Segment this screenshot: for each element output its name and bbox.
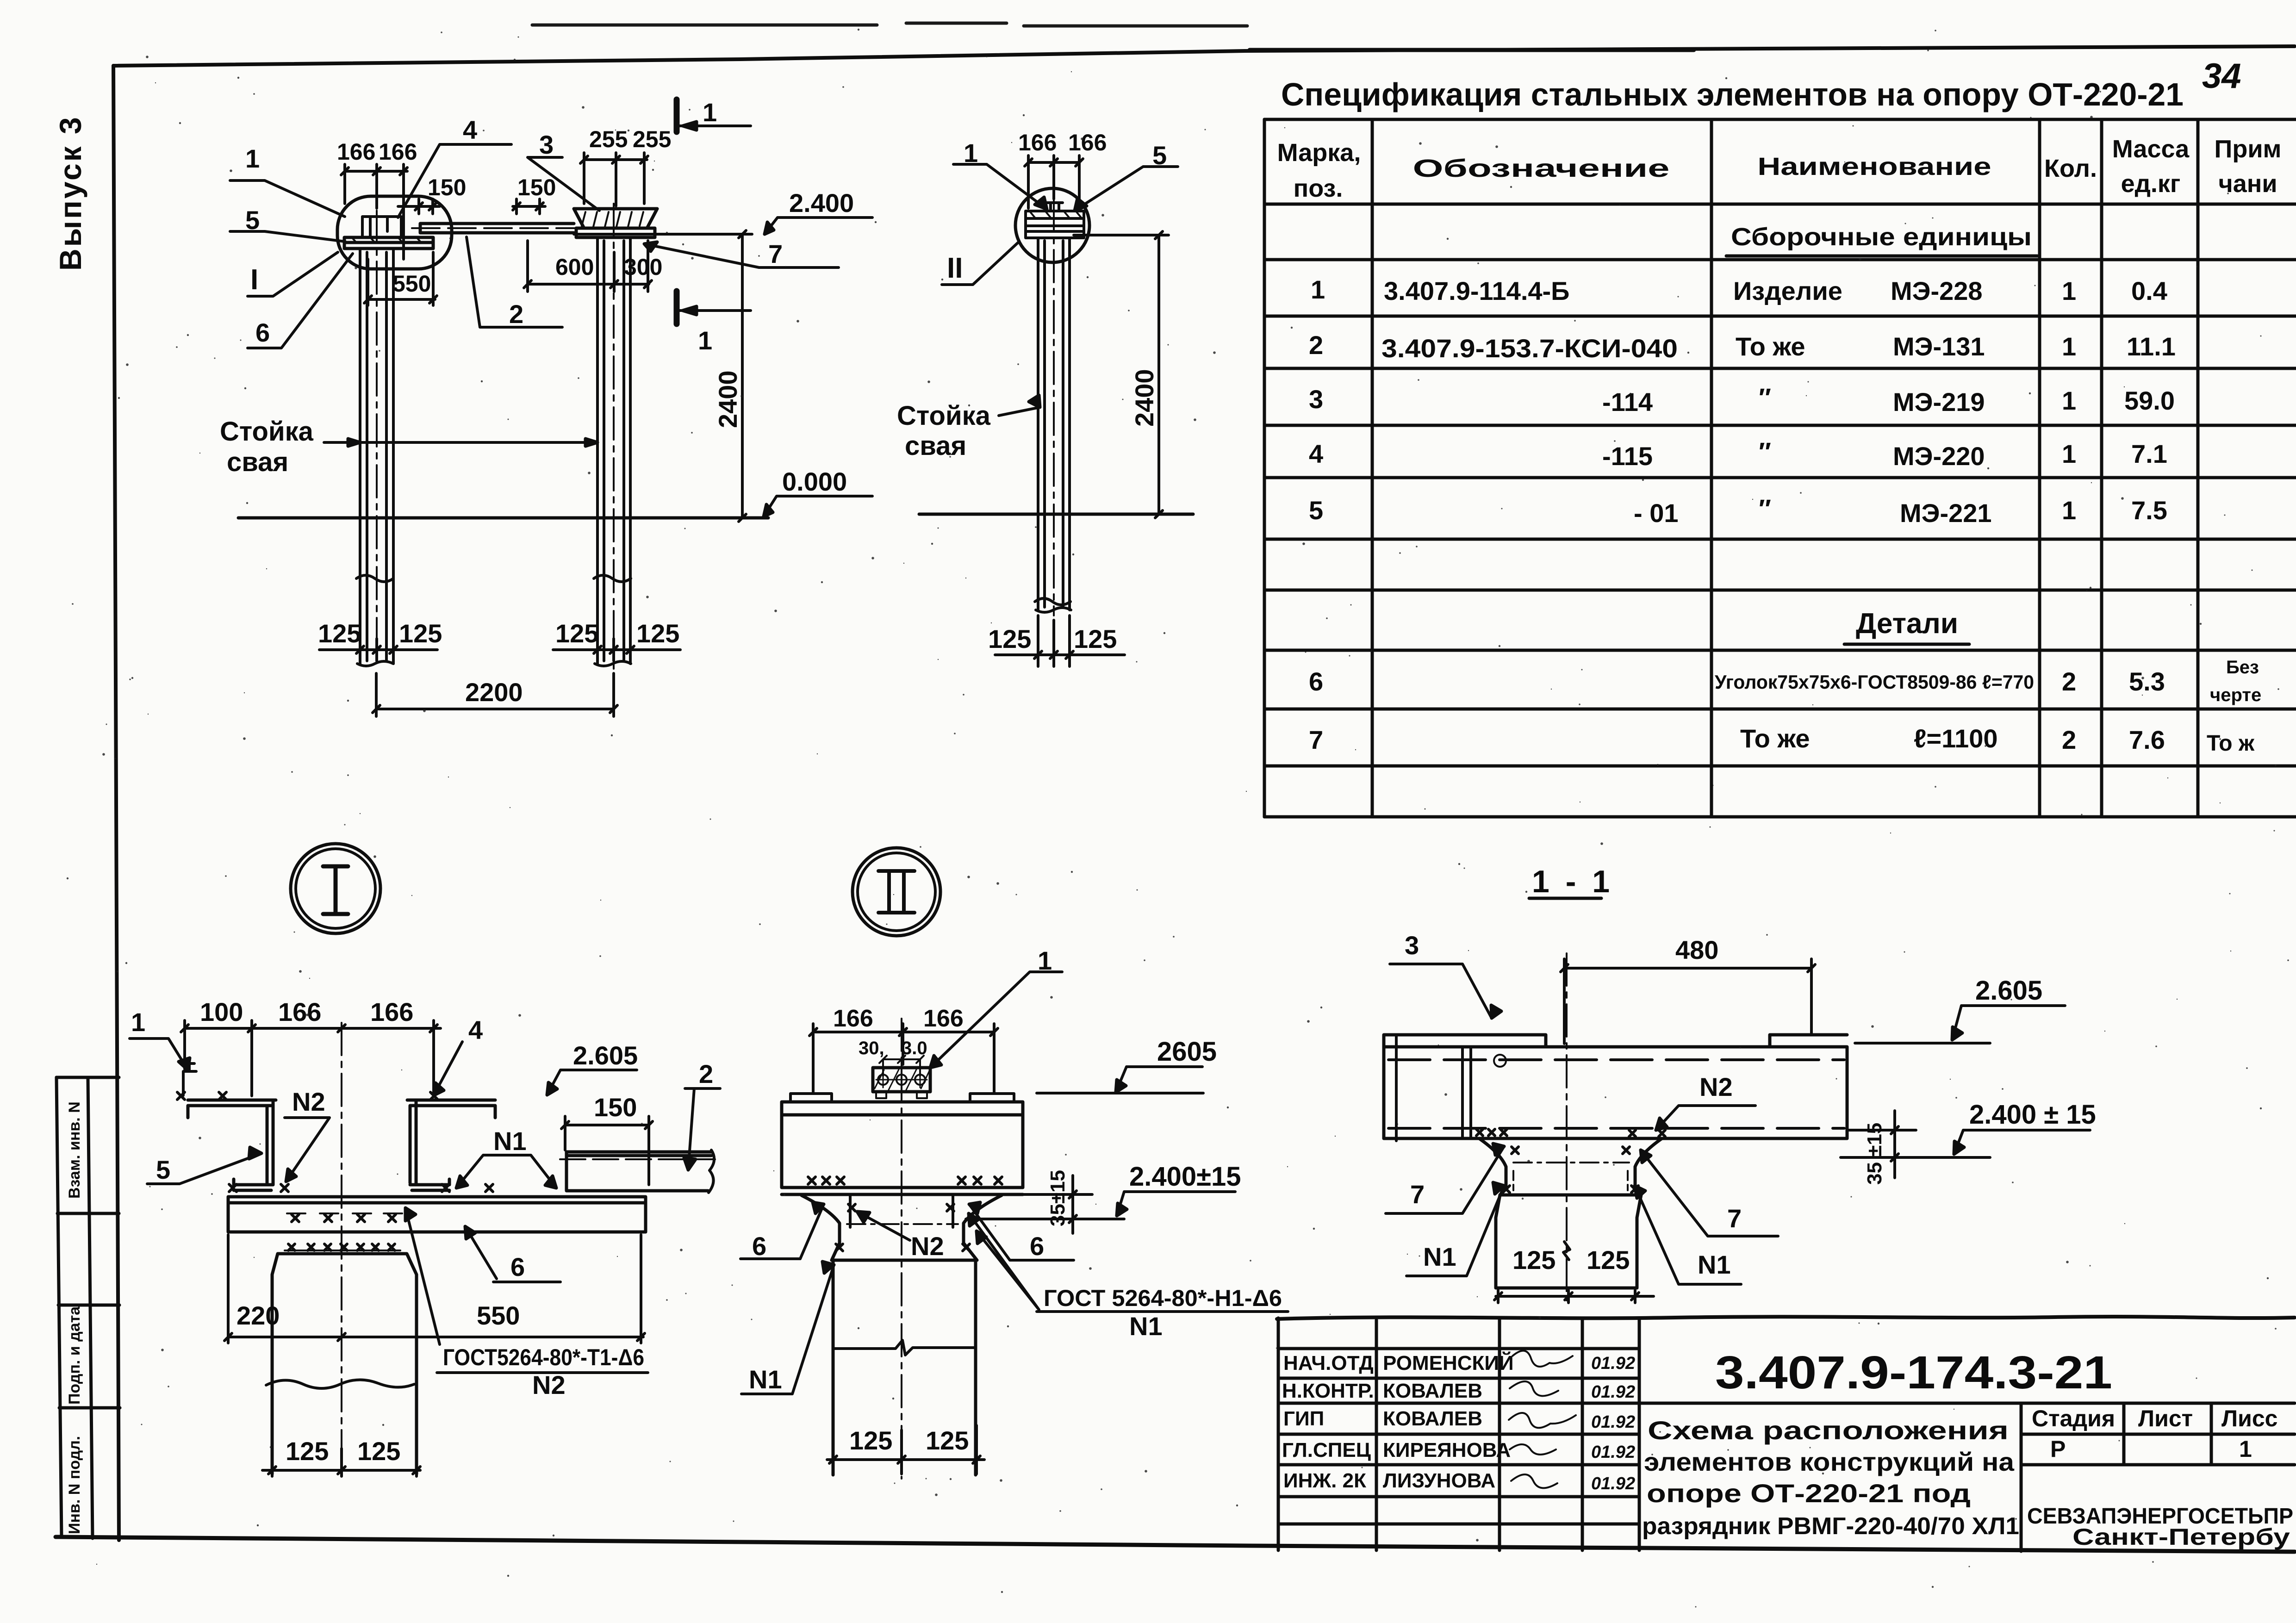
svg-text:3.407.9-114.4-Б: 3.407.9-114.4-Б [1384, 276, 1569, 305]
svg-text:4: 4 [1309, 439, 1323, 468]
svg-text:1: 1 [2062, 439, 2076, 468]
svg-text:Кол.: Кол. [2044, 155, 2097, 182]
svg-text:″: ″ [1759, 437, 1771, 466]
svg-text:150: 150 [517, 174, 556, 200]
svg-text:1: 1 [2062, 332, 2076, 361]
svg-text:- 01: - 01 [1634, 498, 1679, 528]
svg-text:Стадия: Стадия [2032, 1405, 2115, 1431]
svg-text:7.1: 7.1 [2131, 439, 2167, 468]
svg-text:2.400: 2.400 [789, 188, 854, 218]
svg-text:КОВАЛЕВ: КОВАЛЕВ [1383, 1407, 1482, 1430]
svg-text:Стойка: Стойка [897, 401, 991, 431]
svg-text:2: 2 [2062, 725, 2076, 754]
svg-text:1: 1 [2062, 386, 2076, 415]
svg-text:1: 1 [245, 144, 260, 173]
svg-text:166: 166 [370, 997, 413, 1026]
svg-text:2400: 2400 [1130, 369, 1159, 427]
svg-text:МЭ-131: МЭ-131 [1893, 332, 1985, 361]
svg-text:Сборочные единицы: Сборочные единицы [1731, 223, 2032, 251]
svg-text:Р: Р [2050, 1436, 2066, 1462]
svg-text:N2: N2 [292, 1087, 325, 1116]
svg-text:550: 550 [392, 271, 431, 297]
svg-text:7.5: 7.5 [2131, 496, 2167, 525]
svg-text:1: 1 [698, 326, 712, 355]
svg-text:1: 1 [703, 98, 717, 127]
svg-text:Детали: Детали [1856, 608, 1958, 640]
svg-text:То же: То же [1740, 724, 1810, 753]
svg-text:1: 1 [1038, 946, 1052, 975]
svg-text:7: 7 [768, 239, 783, 268]
svg-text:1: 1 [131, 1007, 145, 1037]
svg-text:5.3: 5.3 [2129, 667, 2165, 696]
svg-text:2.400±15: 2.400±15 [1129, 1162, 1241, 1192]
svg-text:2605: 2605 [1157, 1037, 1217, 1067]
svg-text:II: II [947, 252, 963, 284]
svg-text:-114: -114 [1602, 387, 1653, 417]
svg-text:166: 166 [923, 1005, 964, 1032]
svg-text:разрядник РВМГ-220-40/70 ХЛ1: разрядник РВМГ-220-40/70 ХЛ1 [1642, 1513, 2019, 1540]
svg-text:125: 125 [357, 1436, 400, 1466]
svg-text:125: 125 [636, 619, 679, 648]
svg-text:Инв. N подл.: Инв. N подл. [66, 1436, 83, 1534]
svg-text:2.605: 2.605 [573, 1041, 638, 1070]
svg-text:Н.КОНТР.: Н.КОНТР. [1282, 1380, 1374, 1402]
svg-text:Масса: Масса [2112, 135, 2190, 163]
svg-text:125: 125 [1074, 624, 1117, 653]
svg-text:2: 2 [509, 299, 523, 329]
svg-text:N1: N1 [749, 1365, 782, 1394]
svg-text:2: 2 [2062, 667, 2076, 696]
svg-text:125: 125 [555, 619, 598, 648]
svg-text:То ж: То ж [2207, 731, 2255, 756]
svg-text:МЭ-221: МЭ-221 [1900, 498, 1992, 528]
svg-text:МЭ-219: МЭ-219 [1893, 387, 1985, 417]
svg-text:6: 6 [510, 1252, 525, 1281]
svg-text:То же: То же [1736, 332, 1805, 361]
svg-text:2400: 2400 [713, 370, 742, 428]
svg-text:1: 1 [2062, 496, 2076, 525]
svg-text:5: 5 [1309, 496, 1323, 525]
svg-text:166: 166 [1068, 130, 1107, 155]
svg-text:2200: 2200 [465, 678, 523, 707]
svg-text:5: 5 [1152, 141, 1167, 170]
svg-text:100: 100 [200, 997, 243, 1026]
svg-text:N2: N2 [532, 1370, 566, 1399]
svg-text:166: 166 [379, 139, 417, 165]
svg-text:166: 166 [833, 1005, 873, 1032]
svg-text:4: 4 [468, 1015, 483, 1045]
svg-text:Лисс: Лисс [2221, 1405, 2277, 1431]
svg-text:ГОСТ5264-80*-Т1-Δ6: ГОСТ5264-80*-Т1-Δ6 [443, 1344, 644, 1370]
svg-text:480: 480 [1675, 935, 1718, 964]
svg-text:1: 1 [1311, 275, 1325, 304]
svg-text:01.92: 01.92 [1591, 1354, 1635, 1373]
svg-text:3.407.9-153.7-КСИ-040: 3.407.9-153.7-КСИ-040 [1381, 334, 1678, 363]
svg-text:6: 6 [1309, 667, 1323, 696]
svg-text:1: 1 [2239, 1436, 2252, 1462]
svg-text:2.605: 2.605 [1975, 976, 2042, 1006]
svg-text:2: 2 [699, 1059, 713, 1088]
svg-text:7: 7 [1309, 725, 1323, 754]
svg-text:125: 125 [1512, 1245, 1556, 1275]
svg-text:1: 1 [2062, 276, 2076, 305]
svg-text:150: 150 [594, 1093, 637, 1122]
svg-text:КОВАЛЕВ: КОВАЛЕВ [1383, 1380, 1482, 1402]
svg-text:34: 34 [2202, 56, 2241, 96]
svg-text:255: 255 [589, 126, 628, 152]
svg-text:166: 166 [1018, 130, 1057, 155]
svg-text:125: 125 [286, 1436, 329, 1466]
svg-text:1 - 1: 1 - 1 [1532, 864, 1613, 899]
svg-text:элементов конструкций на: элементов конструкций на [1644, 1447, 2015, 1476]
svg-text:свая: свая [905, 431, 966, 461]
svg-text:Прим: Прим [2215, 135, 2282, 163]
svg-text:ГОСТ 5264-80*-Н1-Δ6: ГОСТ 5264-80*-Н1-Δ6 [1044, 1285, 1282, 1311]
svg-text:Обозначение: Обозначение [1413, 155, 1670, 182]
svg-text:166: 166 [337, 139, 375, 165]
svg-text:ГИП: ГИП [1283, 1407, 1324, 1430]
svg-text:7.6: 7.6 [2129, 725, 2165, 754]
svg-text:Санкт-Петербу: Санкт-Петербу [2072, 1524, 2290, 1550]
svg-text:6: 6 [752, 1231, 766, 1261]
svg-text:I: I [250, 264, 258, 296]
svg-text:ед.кг: ед.кг [2121, 170, 2181, 198]
svg-text:125: 125 [399, 619, 442, 648]
svg-text:7: 7 [1727, 1204, 1742, 1233]
svg-text:3: 3 [539, 130, 554, 159]
svg-text:3: 3 [1405, 931, 1419, 960]
svg-text:N1: N1 [1698, 1250, 1731, 1279]
svg-text:01.92: 01.92 [1591, 1382, 1635, 1402]
svg-text:ГЛ.СПЕЦ: ГЛ.СПЕЦ [1282, 1439, 1371, 1461]
svg-text:Лист: Лист [2138, 1405, 2193, 1431]
svg-text:Схема расположения: Схема расположения [1648, 1416, 2009, 1445]
svg-text:35±15: 35±15 [1046, 1170, 1069, 1226]
svg-text:Стойка: Стойка [220, 417, 314, 447]
svg-text:125: 125 [318, 619, 361, 648]
svg-text:Спецификация стальных элемен: Спецификация стальных элементов на опору… [1281, 76, 2184, 112]
svg-text:опоре ОТ-220-21 под: опоре ОТ-220-21 под [1647, 1479, 1971, 1508]
svg-text:Выпуск 3: Выпуск 3 [53, 115, 87, 271]
svg-text:поз.: поз. [1294, 174, 1343, 202]
svg-text:300: 300 [624, 254, 662, 280]
svg-text:30,: 30, [859, 1038, 884, 1058]
svg-text:″: ″ [1759, 383, 1771, 412]
svg-text:Подп. и дата: Подп. и дата [66, 1306, 83, 1405]
svg-text:Наименование: Наименование [1758, 153, 1991, 180]
svg-text:3.407.9-174.3-21: 3.407.9-174.3-21 [1715, 1347, 2112, 1399]
svg-text:5: 5 [245, 205, 260, 235]
svg-text:255: 255 [633, 126, 671, 152]
svg-text:4: 4 [463, 115, 477, 144]
svg-text:свая: свая [227, 447, 288, 477]
svg-text:Уголок75х75х6-ГОСТ8509-86 ℓ=77: Уголок75х75х6-ГОСТ8509-86 ℓ=770 [1715, 671, 2034, 693]
svg-text:3.0: 3.0 [902, 1038, 927, 1058]
svg-text:ИНЖ. 2К: ИНЖ. 2К [1283, 1469, 1366, 1492]
svg-text:6: 6 [1030, 1231, 1044, 1261]
svg-text:0.4: 0.4 [2131, 276, 2167, 305]
svg-text:59.0: 59.0 [2124, 386, 2175, 415]
svg-text:N2: N2 [911, 1231, 944, 1261]
svg-text:Без: Без [2226, 657, 2259, 678]
svg-text:Взам. инв. N: Взам. инв. N [66, 1101, 83, 1199]
svg-text:″: ″ [1759, 494, 1771, 523]
svg-text:11.1: 11.1 [2127, 332, 2176, 361]
svg-text:01.92: 01.92 [1591, 1474, 1635, 1493]
svg-text:НАЧ.ОТД: НАЧ.ОТД [1283, 1352, 1374, 1374]
svg-text:ℓ=1100: ℓ=1100 [1914, 724, 1998, 753]
svg-text:600: 600 [555, 254, 594, 280]
svg-text:N2: N2 [1699, 1072, 1733, 1101]
svg-text:N1: N1 [493, 1126, 527, 1156]
svg-text:125: 125 [926, 1426, 969, 1455]
svg-text:ЛИЗУНОВА: ЛИЗУНОВА [1383, 1469, 1495, 1492]
svg-text:220: 220 [236, 1301, 280, 1330]
svg-text:5: 5 [156, 1155, 170, 1184]
svg-text:черте: черте [2210, 685, 2261, 705]
svg-text:1: 1 [964, 138, 978, 168]
svg-text:150: 150 [428, 174, 466, 200]
svg-text:-115: -115 [1602, 442, 1653, 471]
svg-text:2: 2 [1309, 330, 1323, 360]
svg-text:7: 7 [1410, 1180, 1425, 1209]
svg-text:РОМЕНСКИЙ: РОМЕНСКИЙ [1383, 1351, 1514, 1374]
svg-text:125: 125 [1587, 1245, 1630, 1275]
svg-text:6: 6 [255, 318, 270, 347]
svg-text:125: 125 [988, 624, 1031, 653]
svg-text:0.000: 0.000 [782, 467, 847, 496]
svg-text:2.400 ± 15: 2.400 ± 15 [1969, 1100, 2096, 1130]
svg-text:01.92: 01.92 [1591, 1443, 1635, 1462]
svg-text:МЭ-220: МЭ-220 [1893, 442, 1985, 471]
svg-text:550: 550 [477, 1301, 520, 1330]
svg-text:166: 166 [278, 997, 321, 1026]
svg-text:01.92: 01.92 [1591, 1412, 1635, 1432]
svg-text:Изделие: Изделие [1733, 276, 1842, 305]
svg-text:Марка,: Марка, [1277, 139, 1361, 167]
svg-text:МЭ-228: МЭ-228 [1891, 276, 1983, 305]
svg-text:N1: N1 [1129, 1312, 1163, 1341]
svg-text:125: 125 [849, 1426, 892, 1455]
svg-text:35 ±15: 35 ±15 [1863, 1123, 1886, 1185]
svg-text:3: 3 [1309, 385, 1323, 414]
svg-text:КИРЕЯНОВА: КИРЕЯНОВА [1383, 1439, 1511, 1461]
svg-text:N1: N1 [1423, 1242, 1456, 1271]
